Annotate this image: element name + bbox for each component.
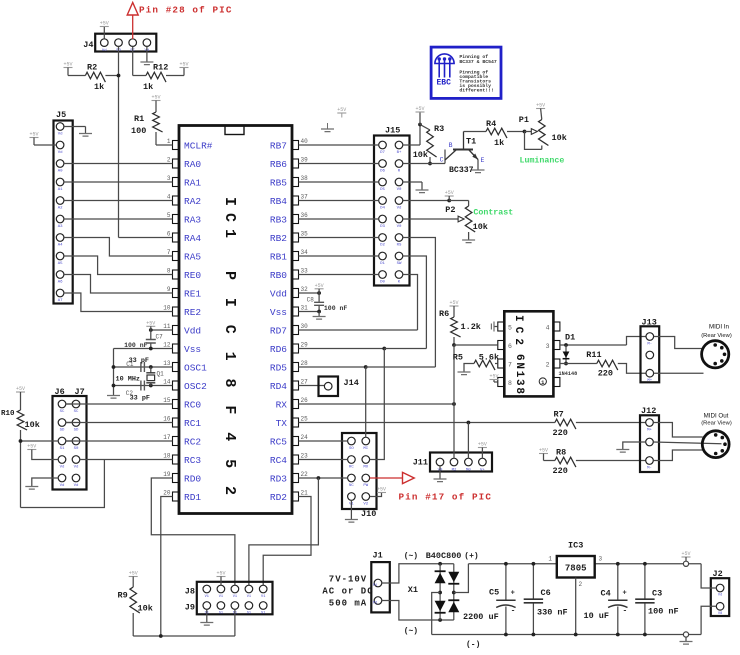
svg-text:(~): (~) bbox=[404, 627, 418, 636]
svg-text:10k: 10k bbox=[138, 604, 153, 614]
svg-text:V1: V1 bbox=[205, 595, 209, 599]
svg-text:R2: R2 bbox=[87, 63, 97, 73]
svg-text:7V-10V: 7V-10V bbox=[329, 575, 367, 585]
svg-text:A7: A7 bbox=[58, 299, 63, 303]
svg-text:8: 8 bbox=[508, 380, 512, 387]
svg-text:RB4: RB4 bbox=[270, 196, 287, 207]
svg-text:J14: J14 bbox=[344, 378, 359, 388]
svg-text:SD: SD bbox=[60, 429, 65, 433]
svg-text:RA5: RA5 bbox=[184, 251, 201, 262]
svg-text:different!!!: different!!! bbox=[459, 88, 494, 94]
svg-text:RE1: RE1 bbox=[184, 288, 201, 299]
svg-text:J13: J13 bbox=[642, 318, 657, 328]
svg-text:E: E bbox=[481, 157, 485, 164]
svg-text:-: - bbox=[623, 607, 628, 616]
svg-text:J11: J11 bbox=[413, 458, 428, 468]
svg-text:4: 4 bbox=[546, 324, 550, 331]
svg-text:Vd: Vd bbox=[58, 150, 63, 155]
svg-text:RA3: RA3 bbox=[184, 214, 201, 225]
svg-text:J8: J8 bbox=[185, 587, 195, 597]
svg-text:3: 3 bbox=[167, 175, 171, 182]
svg-text:+5V: +5V bbox=[445, 190, 454, 196]
svg-text:RA1: RA1 bbox=[184, 177, 201, 188]
svg-text:C6: C6 bbox=[541, 588, 551, 598]
svg-text:J9: J9 bbox=[185, 603, 195, 613]
svg-text:Vss: Vss bbox=[270, 307, 287, 318]
svg-text:D5: D5 bbox=[380, 188, 385, 192]
svg-text:S1: S1 bbox=[261, 611, 265, 615]
svg-text:Vd: Vd bbox=[397, 206, 402, 211]
svg-text:MCLR#: MCLR# bbox=[184, 140, 213, 151]
svg-text:Vd: Vd bbox=[718, 593, 722, 598]
svg-text:RD5: RD5 bbox=[270, 362, 287, 373]
svg-text:IC3: IC3 bbox=[568, 541, 583, 551]
svg-text:RD1: RD1 bbox=[184, 492, 201, 503]
svg-text:+5V: +5V bbox=[315, 283, 324, 289]
svg-text:+5V: +5V bbox=[179, 62, 188, 68]
svg-text:+5V: +5V bbox=[337, 107, 346, 113]
svg-text:5: 5 bbox=[508, 324, 512, 331]
svg-text:1k: 1k bbox=[494, 138, 504, 148]
svg-text:+5V: +5V bbox=[27, 444, 36, 450]
svg-text:A1: A1 bbox=[58, 188, 63, 192]
svg-text:RB2: RB2 bbox=[270, 233, 287, 244]
svg-text:5: 5 bbox=[167, 212, 171, 219]
svg-text:25: 25 bbox=[301, 415, 309, 422]
svg-text:+5V: +5V bbox=[216, 571, 225, 577]
svg-text:RC4: RC4 bbox=[270, 455, 287, 466]
svg-text:B+: B+ bbox=[397, 151, 402, 155]
svg-text:+5V: +5V bbox=[29, 132, 38, 138]
svg-text:10k: 10k bbox=[473, 222, 488, 232]
svg-text:Vd: Vd bbox=[58, 132, 63, 137]
svg-text:RD7: RD7 bbox=[270, 325, 287, 336]
svg-text:AC or DC: AC or DC bbox=[322, 587, 373, 597]
svg-text:RC2: RC2 bbox=[184, 436, 201, 447]
svg-text:+5V: +5V bbox=[16, 386, 25, 392]
svg-text:SC: SC bbox=[74, 410, 79, 414]
svg-text:37: 37 bbox=[301, 193, 309, 200]
svg-text:M-: M- bbox=[647, 467, 652, 471]
svg-text:2: 2 bbox=[579, 581, 583, 588]
svg-text:21: 21 bbox=[301, 489, 309, 496]
svg-text:V8: V8 bbox=[718, 612, 722, 616]
svg-text:2200 uF: 2200 uF bbox=[463, 612, 499, 622]
svg-text:39: 39 bbox=[301, 156, 309, 163]
svg-text:7805: 7805 bbox=[565, 564, 587, 574]
svg-text:A5: A5 bbox=[58, 262, 63, 266]
svg-text:3: 3 bbox=[599, 556, 603, 563]
svg-text:14: 14 bbox=[163, 378, 171, 385]
svg-text:R7: R7 bbox=[554, 410, 564, 420]
svg-text:28: 28 bbox=[301, 360, 309, 367]
svg-text:+5V: +5V bbox=[151, 95, 160, 101]
svg-text:C4: C4 bbox=[601, 589, 611, 599]
svg-text:+5V: +5V bbox=[63, 62, 72, 68]
svg-text:R12: R12 bbox=[153, 63, 168, 73]
svg-text:RC3: RC3 bbox=[184, 455, 201, 466]
svg-text:PIC18F452: PIC18F452 bbox=[221, 271, 238, 495]
svg-text:11: 11 bbox=[163, 323, 171, 330]
svg-text:P1: P1 bbox=[373, 584, 377, 588]
svg-text:RB3: RB3 bbox=[270, 214, 287, 225]
svg-text:1.2k: 1.2k bbox=[461, 322, 481, 332]
svg-text:S1: S1 bbox=[219, 611, 223, 615]
svg-text:R11: R11 bbox=[586, 350, 601, 360]
svg-text:Vd: Vd bbox=[74, 483, 79, 488]
svg-text:10k: 10k bbox=[552, 133, 567, 143]
svg-text:RD4: RD4 bbox=[270, 381, 287, 392]
svg-text:5.6k: 5.6k bbox=[479, 353, 499, 363]
svg-text:V0: V0 bbox=[397, 188, 402, 192]
svg-text:+5V: +5V bbox=[449, 300, 458, 306]
svg-text:RE0: RE0 bbox=[184, 270, 201, 281]
svg-text:T1: T1 bbox=[466, 137, 476, 147]
svg-text:V1: V1 bbox=[219, 595, 223, 599]
svg-text:30: 30 bbox=[301, 323, 309, 330]
svg-text:(~): (~) bbox=[404, 552, 418, 561]
svg-text:15: 15 bbox=[163, 397, 171, 404]
svg-text:J2: J2 bbox=[713, 569, 723, 579]
svg-text:7: 7 bbox=[508, 361, 512, 368]
svg-text:D4: D4 bbox=[380, 207, 385, 211]
svg-text:Vd: Vd bbox=[60, 465, 65, 470]
svg-text:D0: D0 bbox=[380, 281, 385, 285]
svg-text:RA0: RA0 bbox=[184, 159, 201, 170]
svg-text:1: 1 bbox=[167, 138, 171, 145]
svg-text:A4: A4 bbox=[58, 244, 63, 248]
svg-text:22: 22 bbox=[301, 471, 309, 478]
svg-text:D2: D2 bbox=[380, 244, 385, 248]
svg-text:MO: MO bbox=[363, 466, 368, 470]
svg-text:RD0: RD0 bbox=[184, 473, 201, 484]
svg-text:R6: R6 bbox=[439, 309, 449, 319]
svg-text:V0: V0 bbox=[397, 225, 402, 229]
svg-text:C3: C3 bbox=[652, 589, 662, 599]
svg-text:1N4148: 1N4148 bbox=[559, 371, 578, 377]
svg-text:V+: V+ bbox=[480, 468, 485, 472]
svg-text:RB5: RB5 bbox=[270, 177, 287, 188]
svg-text:P2: P2 bbox=[373, 602, 377, 606]
svg-text:20: 20 bbox=[163, 489, 171, 496]
svg-text:24: 24 bbox=[301, 434, 309, 441]
svg-text:D7: D7 bbox=[380, 151, 385, 155]
svg-text:34: 34 bbox=[301, 249, 309, 256]
svg-text:Vdd: Vdd bbox=[184, 325, 201, 336]
svg-text:A2: A2 bbox=[58, 207, 63, 211]
svg-text:220: 220 bbox=[598, 368, 613, 378]
svg-text:+5V: +5V bbox=[489, 374, 498, 380]
svg-text:J6: J6 bbox=[55, 387, 65, 397]
svg-text:R10: R10 bbox=[1, 410, 15, 418]
svg-text:MIDI In: MIDI In bbox=[709, 324, 729, 331]
svg-text:J10: J10 bbox=[361, 509, 376, 519]
svg-text:+5V: +5V bbox=[129, 571, 138, 577]
svg-text:A0: A0 bbox=[58, 170, 63, 174]
svg-text:V1: V1 bbox=[261, 595, 265, 599]
svg-text:10k: 10k bbox=[25, 420, 40, 430]
svg-text:NC: NC bbox=[349, 484, 354, 488]
svg-text:RA2: RA2 bbox=[184, 196, 201, 207]
svg-text:Q1: Q1 bbox=[157, 371, 165, 378]
svg-text:Vd: Vd bbox=[60, 483, 65, 488]
svg-text:+5V: +5V bbox=[478, 442, 487, 448]
svg-text:33 pF: 33 pF bbox=[129, 357, 149, 365]
svg-text:R8: R8 bbox=[556, 448, 566, 458]
svg-text:C5: C5 bbox=[489, 588, 499, 598]
svg-text:M+: M+ bbox=[647, 429, 652, 433]
svg-text:+5V: +5V bbox=[536, 103, 545, 109]
svg-text:OSC2: OSC2 bbox=[184, 381, 207, 392]
svg-text:+5V: +5V bbox=[377, 487, 386, 493]
svg-text:C7: C7 bbox=[156, 334, 164, 341]
svg-text:13: 13 bbox=[163, 360, 171, 367]
svg-text:D3: D3 bbox=[380, 225, 385, 229]
svg-text:J5: J5 bbox=[56, 110, 66, 120]
svg-text:Vdd: Vdd bbox=[270, 288, 287, 299]
svg-text:(Rear View): (Rear View) bbox=[701, 421, 732, 427]
svg-text:Vss: Vss bbox=[184, 344, 201, 355]
svg-text:2: 2 bbox=[167, 156, 171, 163]
svg-text:RB7: RB7 bbox=[270, 140, 287, 151]
svg-text:Pin #17 of PIC: Pin #17 of PIC bbox=[399, 492, 493, 503]
svg-text:X1: X1 bbox=[408, 585, 418, 595]
svg-text:R4: R4 bbox=[486, 119, 496, 129]
svg-text:(+): (+) bbox=[464, 552, 478, 561]
svg-text:S0: S0 bbox=[74, 447, 79, 451]
svg-text:R1: R1 bbox=[134, 114, 144, 124]
svg-text:6N138: 6N138 bbox=[513, 354, 525, 394]
svg-text:A3: A3 bbox=[58, 225, 63, 229]
svg-text:A6: A6 bbox=[58, 281, 63, 285]
svg-text:RC: RC bbox=[349, 466, 354, 470]
svg-text:Contrast: Contrast bbox=[473, 209, 513, 218]
svg-text:10k: 10k bbox=[413, 150, 428, 160]
svg-text:40: 40 bbox=[301, 138, 309, 145]
svg-text:+5V: +5V bbox=[415, 106, 424, 112]
svg-text:S1: S1 bbox=[60, 447, 65, 451]
svg-text:V1: V1 bbox=[247, 595, 251, 599]
svg-text:J15: J15 bbox=[385, 126, 400, 136]
svg-text:M-: M- bbox=[647, 343, 652, 347]
svg-text:16: 16 bbox=[163, 415, 171, 422]
svg-text:IC1: IC1 bbox=[221, 197, 238, 238]
svg-text:D6: D6 bbox=[380, 170, 385, 174]
svg-text:PW: PW bbox=[363, 484, 368, 488]
svg-text:-: - bbox=[511, 607, 516, 616]
svg-text:19: 19 bbox=[163, 471, 171, 478]
svg-text:BC337 & BC547: BC337 & BC547 bbox=[459, 59, 497, 65]
svg-text:RB0: RB0 bbox=[270, 270, 287, 281]
svg-text:+5V: +5V bbox=[539, 448, 548, 454]
svg-text:26: 26 bbox=[301, 397, 309, 404]
svg-text:RC1: RC1 bbox=[184, 418, 201, 429]
svg-text:18: 18 bbox=[163, 452, 171, 459]
svg-text:M2: M2 bbox=[452, 468, 457, 472]
svg-text:10 uF: 10 uF bbox=[584, 611, 610, 621]
svg-text:SD: SD bbox=[74, 429, 79, 433]
svg-text:1: 1 bbox=[548, 556, 552, 563]
svg-text:36: 36 bbox=[301, 212, 309, 219]
svg-text:+: + bbox=[511, 590, 515, 598]
svg-text:RD6: RD6 bbox=[270, 344, 287, 355]
svg-text:29: 29 bbox=[301, 341, 309, 348]
svg-text:1k: 1k bbox=[143, 82, 153, 92]
svg-text:31: 31 bbox=[301, 304, 309, 311]
svg-text:OSC1: OSC1 bbox=[184, 362, 207, 373]
svg-text:100 nF: 100 nF bbox=[324, 305, 348, 312]
svg-text:12: 12 bbox=[163, 341, 171, 348]
svg-text:3: 3 bbox=[546, 343, 550, 350]
svg-text:RC0: RC0 bbox=[184, 399, 201, 410]
svg-text:220: 220 bbox=[553, 466, 568, 476]
svg-text:1k: 1k bbox=[94, 82, 104, 92]
svg-text:RD2: RD2 bbox=[270, 492, 287, 503]
svg-text:MI: MI bbox=[363, 447, 368, 451]
svg-text:EBC: EBC bbox=[437, 79, 452, 88]
svg-text:6: 6 bbox=[508, 343, 512, 350]
svg-text:MIDI Out: MIDI Out bbox=[704, 413, 729, 420]
svg-text:23: 23 bbox=[301, 452, 309, 459]
svg-text:17: 17 bbox=[163, 434, 171, 441]
svg-text:Vd: Vd bbox=[102, 48, 107, 53]
svg-text:27: 27 bbox=[301, 378, 309, 385]
svg-text:C: C bbox=[440, 157, 444, 164]
svg-text:10: 10 bbox=[163, 304, 171, 311]
svg-text:P2: P2 bbox=[445, 205, 455, 215]
svg-text:RA4: RA4 bbox=[184, 233, 201, 244]
svg-text:C8: C8 bbox=[307, 297, 315, 304]
svg-text:Luminance: Luminance bbox=[520, 156, 565, 166]
svg-text:BC337: BC337 bbox=[449, 166, 474, 175]
svg-text:500 mA: 500 mA bbox=[329, 599, 367, 609]
svg-text:(-): (-) bbox=[466, 641, 480, 650]
svg-text:SO: SO bbox=[349, 447, 354, 451]
svg-text:J4: J4 bbox=[83, 40, 93, 50]
svg-text:330 nF: 330 nF bbox=[537, 608, 568, 618]
svg-text:RX: RX bbox=[276, 399, 288, 410]
svg-text:+5V: +5V bbox=[681, 551, 690, 557]
svg-text:RD3: RD3 bbox=[270, 473, 287, 484]
svg-text:33 pF: 33 pF bbox=[130, 395, 150, 403]
svg-text:P1: P1 bbox=[519, 115, 529, 125]
svg-text:IC2: IC2 bbox=[512, 315, 524, 345]
svg-text:100 nF: 100 nF bbox=[648, 607, 679, 617]
svg-text:TX: TX bbox=[276, 418, 288, 429]
svg-text:M+: M+ bbox=[647, 379, 652, 383]
svg-text:8: 8 bbox=[167, 267, 171, 274]
svg-text:220: 220 bbox=[553, 428, 568, 438]
svg-text:R9: R9 bbox=[118, 591, 128, 601]
svg-text:7: 7 bbox=[167, 249, 171, 256]
svg-text:6: 6 bbox=[167, 230, 171, 237]
svg-text:RE2: RE2 bbox=[184, 307, 201, 318]
svg-text:J7: J7 bbox=[75, 387, 85, 397]
svg-text:RC5: RC5 bbox=[270, 436, 287, 447]
svg-text:+5V: +5V bbox=[100, 21, 109, 27]
svg-text:M0: M0 bbox=[466, 468, 471, 472]
svg-text:4: 4 bbox=[167, 193, 171, 200]
svg-text:33: 33 bbox=[301, 267, 309, 274]
svg-text:B: B bbox=[449, 142, 453, 149]
svg-text:V2: V2 bbox=[363, 503, 368, 507]
svg-text:B40C800: B40C800 bbox=[426, 551, 462, 561]
svg-text:J1: J1 bbox=[373, 551, 383, 561]
svg-text:35: 35 bbox=[301, 230, 309, 237]
svg-text:100: 100 bbox=[131, 126, 146, 136]
svg-text:38: 38 bbox=[301, 175, 309, 182]
svg-text:10 MHz: 10 MHz bbox=[116, 376, 140, 384]
svg-text:D1: D1 bbox=[380, 262, 385, 266]
svg-text:R5: R5 bbox=[453, 353, 463, 363]
svg-text:R3: R3 bbox=[434, 124, 444, 134]
svg-text:32: 32 bbox=[301, 286, 309, 293]
svg-text:Pin #28 of PIC: Pin #28 of PIC bbox=[139, 5, 233, 16]
svg-text:+5V: +5V bbox=[146, 321, 155, 327]
svg-text:9: 9 bbox=[167, 286, 171, 293]
svg-text:2: 2 bbox=[546, 361, 550, 368]
svg-text:SC: SC bbox=[60, 410, 65, 414]
svg-text:S1: S1 bbox=[247, 611, 251, 615]
svg-text:V1: V1 bbox=[233, 595, 237, 599]
svg-text:(Rear View): (Rear View) bbox=[701, 333, 732, 339]
svg-text:RB6: RB6 bbox=[270, 159, 287, 170]
svg-text:SW: SW bbox=[397, 262, 402, 266]
svg-text:+: + bbox=[623, 590, 627, 598]
svg-text:RS: RS bbox=[397, 244, 402, 248]
svg-text:Vd: Vd bbox=[74, 465, 79, 470]
svg-text:D1: D1 bbox=[565, 333, 575, 343]
svg-text:J12: J12 bbox=[641, 406, 656, 416]
svg-text:RB1: RB1 bbox=[270, 251, 287, 262]
